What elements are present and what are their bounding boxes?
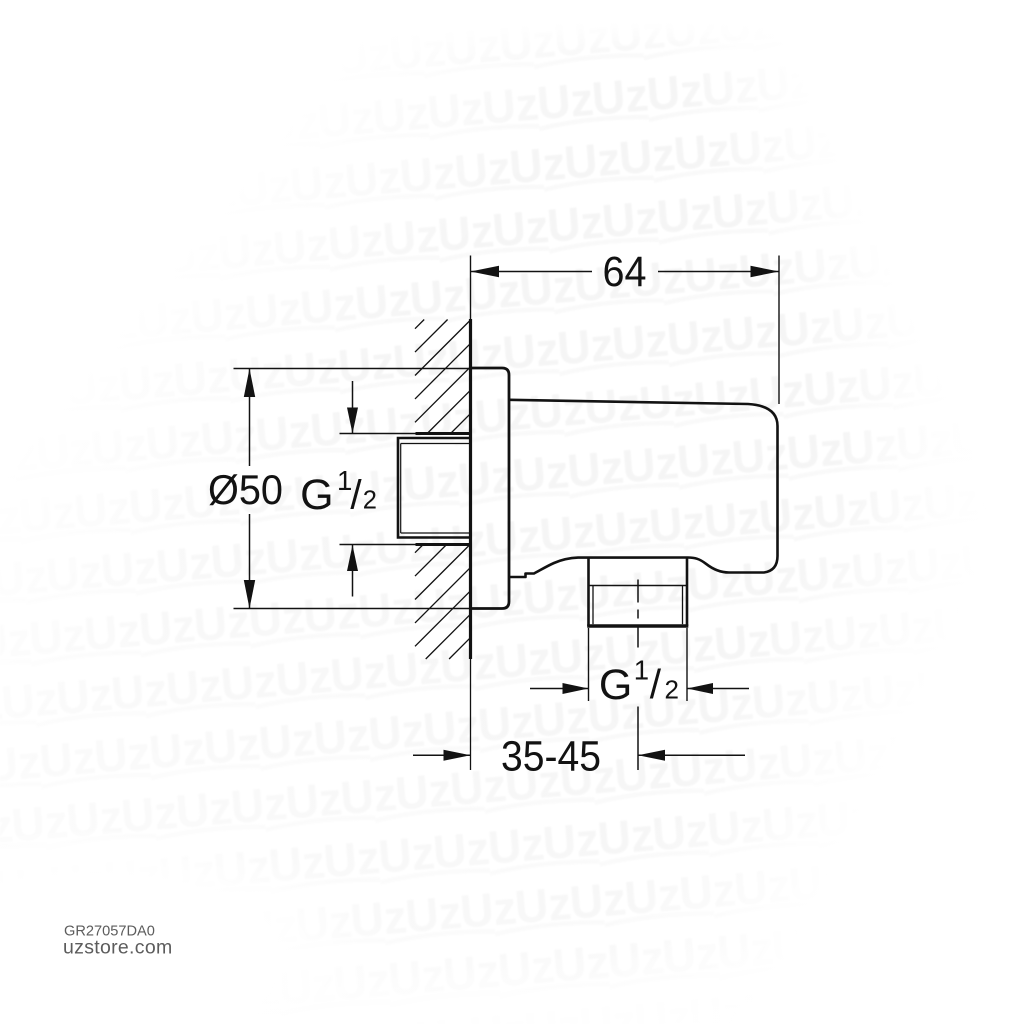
svg-text:1: 1 — [634, 654, 649, 685]
svg-text:/: / — [650, 661, 662, 707]
svg-text:35-45: 35-45 — [501, 733, 601, 781]
svg-text:uzstore.com: uzstore.com — [63, 937, 173, 959]
svg-text:/: / — [350, 472, 362, 518]
svg-text:G: G — [599, 661, 632, 709]
svg-text:G: G — [300, 471, 333, 519]
svg-text:Ø50: Ø50 — [208, 466, 283, 513]
svg-text:2: 2 — [665, 674, 679, 704]
svg-text:2: 2 — [363, 486, 377, 514]
svg-text:64: 64 — [603, 248, 647, 296]
